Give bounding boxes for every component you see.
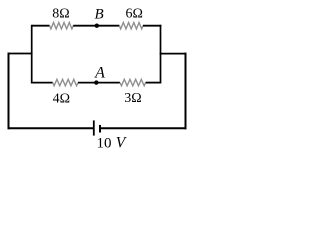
wire top branch left stub — [32, 25, 50, 27]
svg-text:8Ω: 8Ω — [52, 7, 69, 22]
wire right inner vertical — [160, 25, 162, 84]
wire top branch middle — [73, 25, 119, 27]
wire middle branch center — [78, 82, 120, 84]
svg-text:V: V — [116, 134, 127, 151]
resistor R3 4Ω zigzag — [53, 79, 78, 85]
battery short plate — [99, 125, 101, 133]
node B dot — [95, 24, 99, 28]
resistor R2 6Ω zigzag — [119, 23, 143, 29]
wire left inner vertical — [31, 25, 33, 84]
wire middle branch left stub — [32, 82, 53, 84]
svg-text:A: A — [94, 64, 105, 81]
battery long plate — [93, 120, 95, 135]
wire bottom left of battery — [8, 127, 94, 129]
wire middle branch right stub — [146, 82, 161, 84]
svg-text:4Ω: 4Ω — [53, 91, 70, 106]
svg-text:B: B — [95, 7, 104, 23]
node A dot — [94, 80, 98, 84]
resistor R1 8Ω zigzag — [50, 23, 74, 29]
svg-text:3Ω: 3Ω — [124, 91, 141, 106]
wire left connector horizontal — [8, 53, 33, 55]
wire top branch right stub — [143, 25, 161, 27]
wire right outer vertical — [185, 53, 187, 130]
wire right connector horizontal — [160, 53, 187, 55]
svg-text:10: 10 — [97, 135, 112, 151]
wire bottom right of battery — [100, 127, 187, 129]
wire left outer vertical — [8, 53, 10, 130]
svg-text:6Ω: 6Ω — [125, 7, 142, 22]
resistor R4 3Ω zigzag — [120, 79, 146, 85]
